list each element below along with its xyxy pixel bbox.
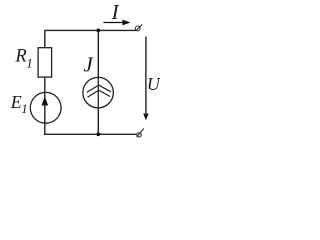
terminal (bottom right) [137, 129, 144, 138]
wire (middle vertical, J to bottom) [97, 108, 99, 134]
voltage arrow U [143, 37, 148, 121]
current source J [83, 77, 114, 108]
wire (left vertical, top segment) [44, 30, 46, 49]
current arrow I [103, 20, 130, 26]
svg-text:R: R [14, 47, 26, 67]
EMF source E1 [30, 92, 61, 123]
svg-text:U: U [147, 74, 160, 94]
wire (left vertical, resistor to E1) [44, 77, 46, 93]
svg-text:1: 1 [26, 56, 33, 71]
resistor R1 [38, 48, 52, 77]
terminal (top right) [135, 24, 142, 31]
junction (bottom) [96, 132, 100, 136]
wire (top horizontal) [45, 29, 136, 31]
svg-text:1: 1 [21, 101, 28, 116]
wire (left vertical, E1 to bottom) [44, 123, 46, 135]
svg-text:E: E [10, 92, 22, 112]
wire (bottom horizontal) [44, 133, 137, 135]
wire (middle vertical, top to J) [97, 30, 99, 78]
junction (top) [96, 29, 100, 33]
svg-text:I: I [111, 0, 120, 24]
svg-text:J: J [83, 53, 94, 77]
